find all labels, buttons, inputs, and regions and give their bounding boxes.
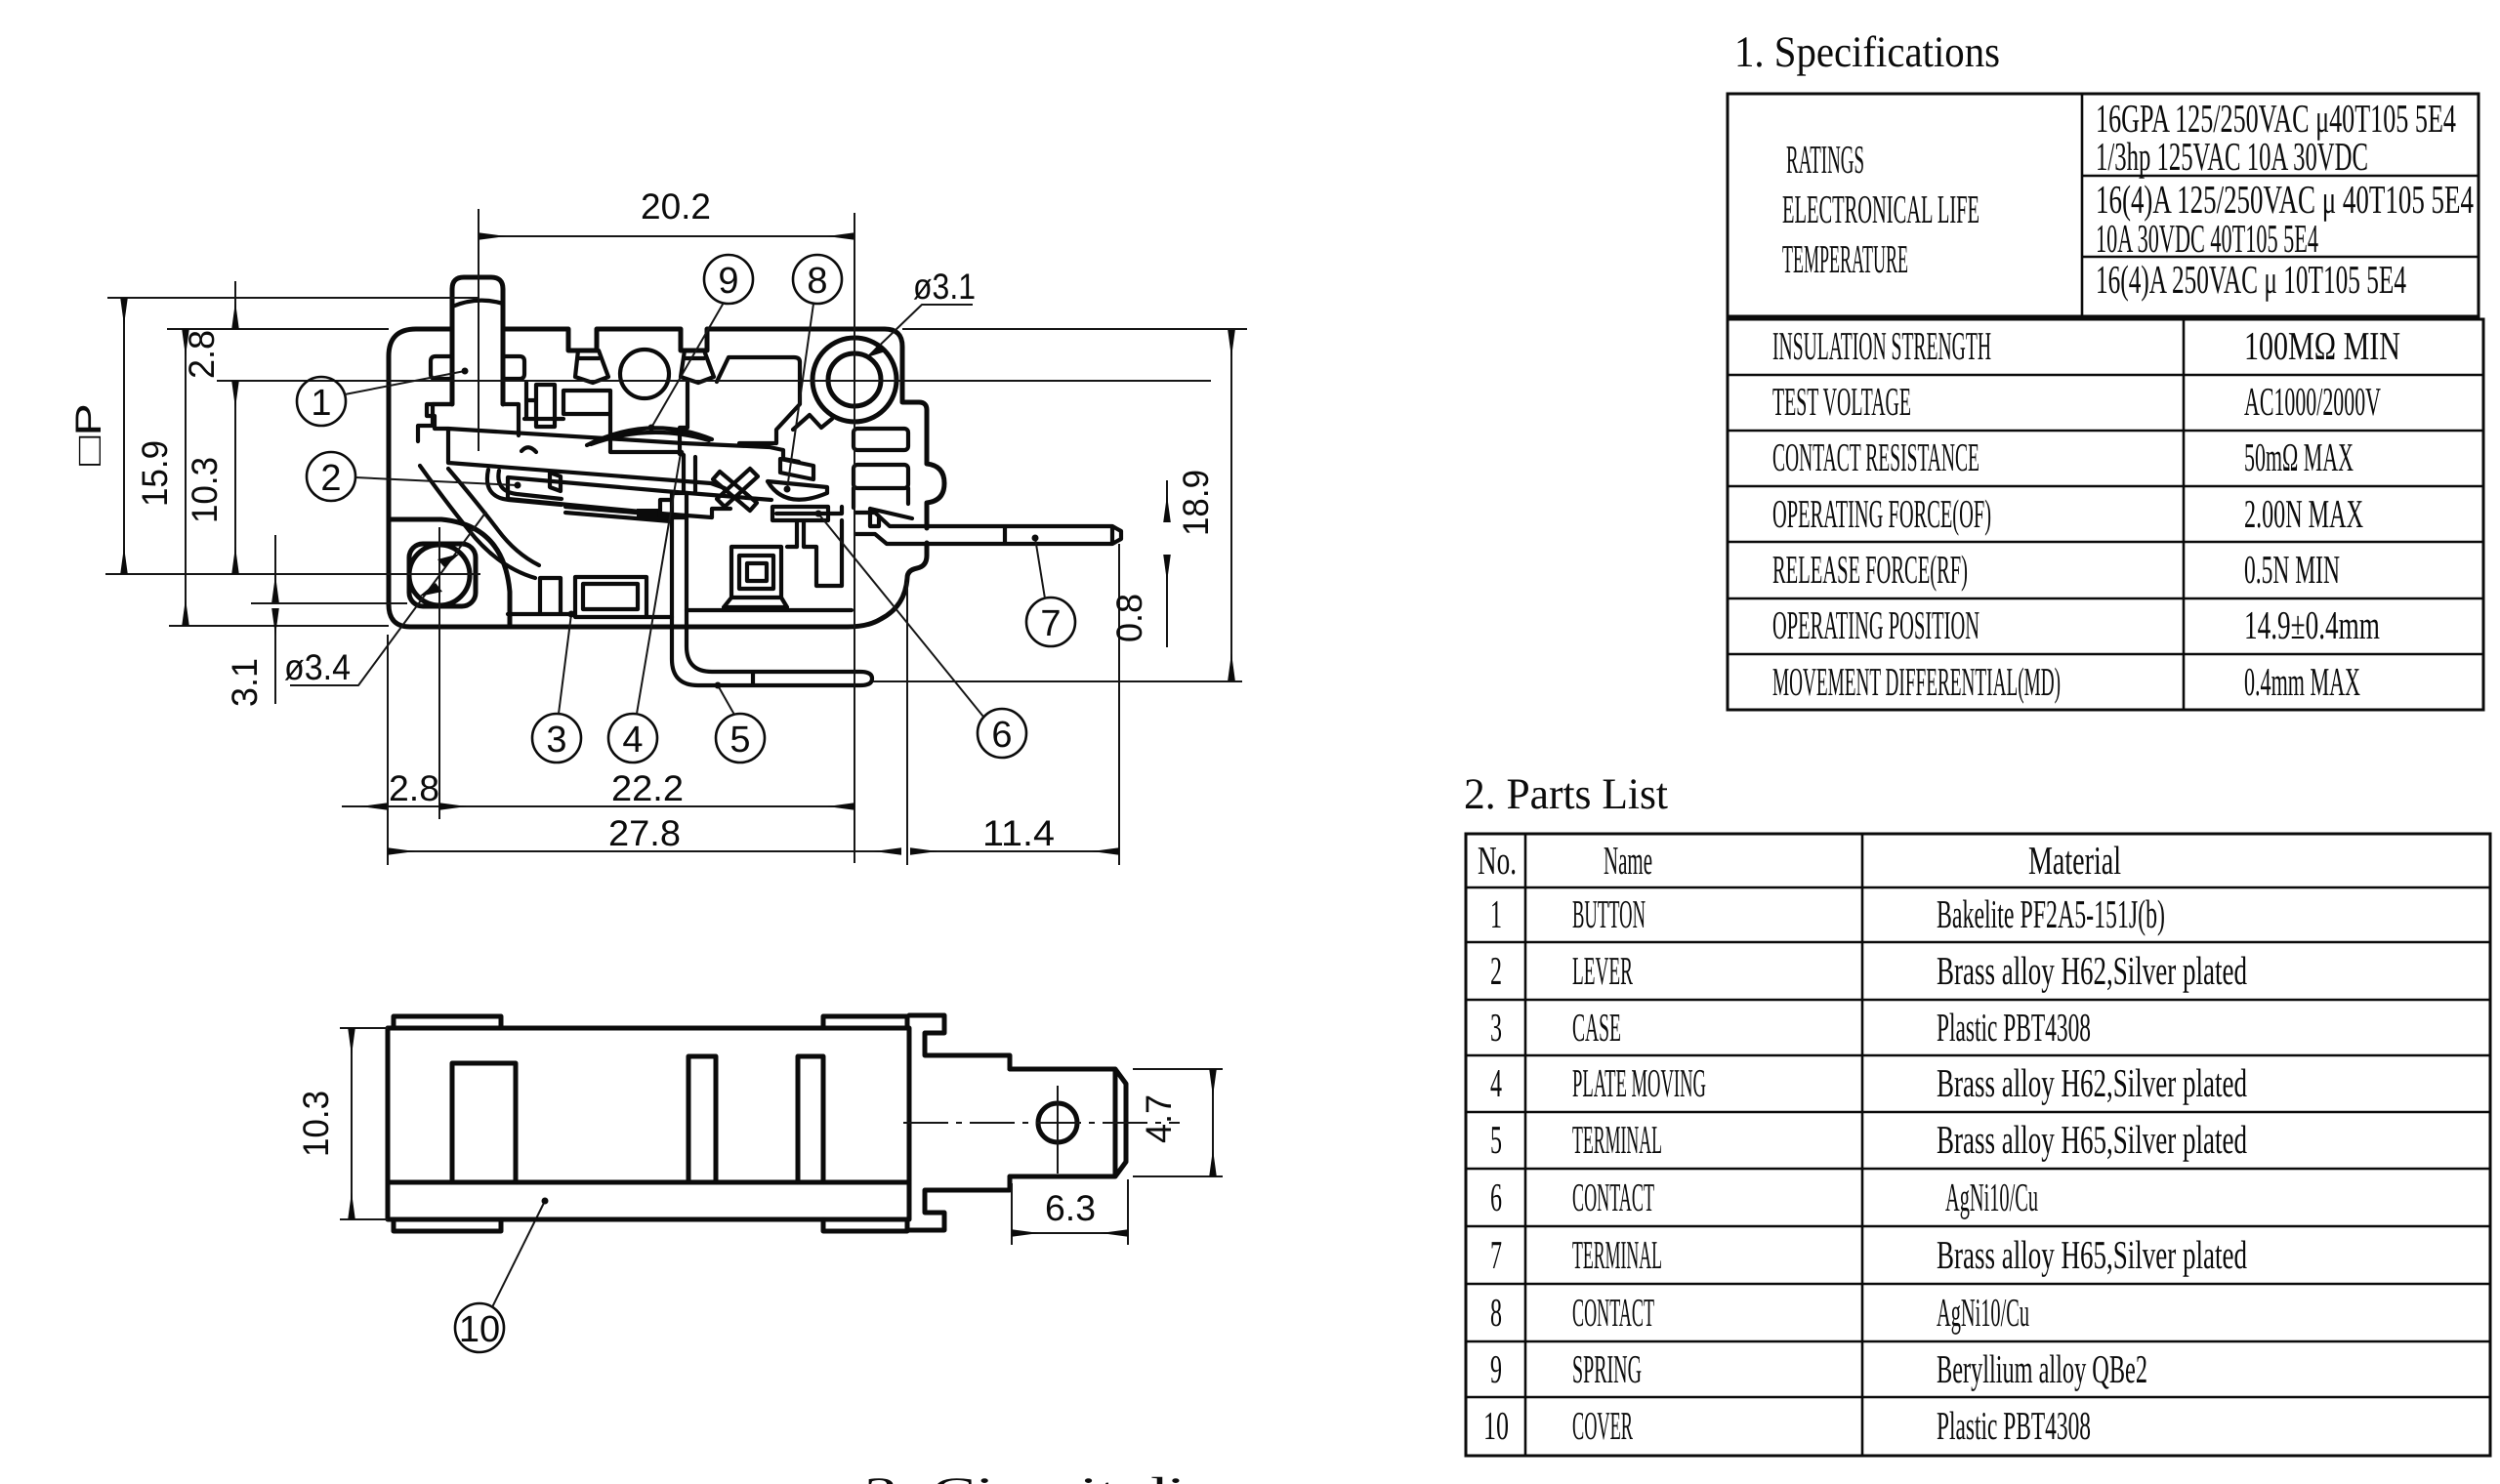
svg-text:10A 30VDC 40T105 5E4: 10A 30VDC 40T105 5E4 [2096,216,2318,261]
svg-text:COVER: COVER [1572,1403,1633,1448]
cover top-right tab [823,1016,907,1028]
o3.4 hole circle [409,545,470,605]
svg-text:0.8: 0.8 [1109,594,1149,642]
dimension 18.9 vertical [1230,330,1232,680]
dimension 11.4 horizontal [910,850,1119,852]
svg-text:TEST VOLTAGE: TEST VOLTAGE [1772,379,1911,424]
svg-text:SPRING: SPRING [1572,1346,1642,1391]
lower-left boss outline [389,519,510,626]
BOTTOM SIDE VIEW [296,1015,1223,1245]
svg-text:5: 5 [1490,1117,1502,1162]
svg-text:4: 4 [1490,1060,1502,1105]
blade hole vertical centerline [1057,1086,1059,1174]
svg-text:6: 6 [991,715,1012,756]
dimension 10.3 bottom view [340,1027,388,1029]
svg-text:LEVER: LEVER [1572,948,1633,993]
centerline through o3.1 vertical [854,213,855,863]
svg-text:Brass alloy H65,Silver plated: Brass alloy H65,Silver plated [1937,1117,2247,1162]
dimension 6.3 [1011,1183,1013,1245]
svg-text:10: 10 [459,1309,500,1350]
crossed contact bar B [713,472,757,511]
svg-text:RELEASE FORCE(RF): RELEASE FORCE(RF) [1772,547,1968,592]
extension line inner ledge y390 [217,380,1211,382]
contact support risers [787,507,842,586]
svg-text:7: 7 [1490,1232,1502,1277]
cover bottom-left tab [394,1219,501,1231]
svg-text:15.9: 15.9 [135,440,175,507]
extension 20.2 left [478,209,479,451]
spring lens part 9 [587,428,712,445]
svg-text:ø3.1: ø3.1 [913,267,976,307]
svg-text:4.7: 4.7 [1139,1094,1179,1143]
svg-text:CONTACT: CONTACT [1572,1175,1654,1219]
lever bar part 2 [427,404,799,488]
svg-text:4: 4 [622,720,643,761]
button skirt [418,404,519,441]
svg-text:14.9±0.4mm: 14.9±0.4mm [2244,602,2380,647]
svg-text:11.4: 11.4 [982,813,1055,853]
leader o3.4 arrowheads [419,583,442,597]
terminal blade [1010,1069,1126,1176]
svg-text:OPERATING FORCE(OF): OPERATING FORCE(OF) [1772,491,1991,536]
svg-text:Name: Name [1604,838,1652,883]
svg-text:AgNi10/Cu: AgNi10/Cu [1945,1175,2038,1219]
extension line case bottom left [169,625,389,627]
svg-text:ELECTRONICAL LIFE: ELECTRONICAL LIFE [1782,186,1979,231]
leader o3.1 [868,305,973,356]
part 8 support slant [780,459,813,479]
cover top-left tab [394,1016,501,1028]
top-middle right tooth [681,350,714,383]
inner wall left curve second [448,469,539,565]
dash-dot centerline [903,1122,1180,1124]
svg-text:10.3: 10.3 [296,1091,336,1157]
boss lower rib [854,488,912,526]
inner wall left curve [420,466,535,578]
dimension 15.9 vertical [185,329,187,626]
dimension 22.2 horizontal [439,805,854,807]
svg-text:3. Circuit diagram: 3. Circuit diagram [864,1468,1353,1484]
svg-text:BUTTON: BUTTON [1572,891,1646,936]
svg-text:OPERATING POSITION: OPERATING POSITION [1772,602,1979,647]
callout 1 [297,377,346,426]
extension line case top right to 18.9 [902,328,1247,330]
callout 3 [532,714,581,763]
svg-text:1. Specifications: 1. Specifications [1734,27,2000,76]
svg-text:Material: Material [2028,838,2121,883]
extension case left bottom [387,635,389,865]
dimension 20.2 horizontal [479,235,854,237]
dimension 27.8 horizontal [388,850,901,852]
svg-text:CONTACT: CONTACT [1572,1290,1654,1335]
callout 7 [1026,598,1075,646]
terminal neck top profile [909,1015,1010,1069]
parts row lines [1466,941,2490,944]
button dome inner line [452,301,503,307]
svg-text:AgNi10/Cu: AgNi10/Cu [1937,1290,2029,1335]
svg-text:ø3.4: ø3.4 [284,647,351,687]
terminal part 7 strip [855,513,1121,544]
ratings row line 2 [2082,256,2479,259]
DIMENSIONS MAIN VIEW [68,186,1247,865]
nested contact stack [724,547,787,607]
svg-text:10.3: 10.3 [185,457,225,523]
svg-text:18.9: 18.9 [1176,470,1216,536]
svg-text:PLATE MOVING: PLATE MOVING [1572,1060,1706,1105]
extension line hole bottom y618 [251,602,407,604]
svg-text:27.8: 27.8 [608,813,681,853]
svg-text:No.: No. [1478,838,1517,883]
moving plate part 4 [508,455,771,521]
hole circle inner o3.1 [828,353,881,406]
pivot post [536,385,555,427]
svg-text:2.8: 2.8 [182,330,222,379]
svg-text:6: 6 [1490,1175,1502,1219]
parts table frame [1466,834,2490,1456]
spec row lines [1728,374,2483,377]
inner left wall post [524,383,563,419]
o3.4 pocket rounded square [409,544,476,606]
callout 10 [455,1303,504,1352]
CALLOUTS [297,255,1075,1352]
svg-text:TERMINAL: TERMINAL [1572,1117,1662,1162]
svg-text:Beryllium alloy QBe2: Beryllium alloy QBe2 [1937,1346,2147,1391]
ratings column divider [2081,94,2084,316]
stationary contact block part 6 [772,507,828,547]
button left tab [431,356,452,379]
svg-text:CASE: CASE [1572,1005,1621,1050]
svg-text:0.4mm MAX: 0.4mm MAX [2244,659,2360,704]
svg-text:100MΩ MIN: 100MΩ MIN [2244,323,2400,368]
extension terminal end for 11.4 [1118,544,1120,865]
svg-text:TEMPERATURE: TEMPERATURE [1782,236,1908,281]
svg-text:AC1000/2000V: AC1000/2000V [2244,379,2381,424]
dimension 2.8 bottom horizontal [342,805,388,807]
svg-text:8: 8 [807,261,827,302]
spec table frame [1728,319,2483,710]
interior land double rect [575,577,852,617]
svg-text:10: 10 [1483,1403,1509,1448]
svg-text:Plastic PBT4308: Plastic PBT4308 [1937,1403,2091,1448]
inner ceiling steps right of circle [563,383,687,452]
interior floor windows [508,578,575,614]
svg-text:2: 2 [320,458,341,499]
svg-text:16(4)A 250VAC μ 10T105 5E4: 16(4)A 250VAC μ 10T105 5E4 [2096,257,2406,302]
svg-text:3: 3 [546,720,566,761]
extension line bottom pin level y698 [873,680,1242,682]
terminal neck bottom profile [909,1176,1010,1230]
svg-text:Brass alloy H65,Silver plated: Brass alloy H65,Silver plated [1937,1232,2247,1277]
dimension 4.7 [1133,1068,1223,1070]
callout 2 [307,452,355,501]
cover slot 3 [798,1056,823,1182]
small wedge detail [550,473,561,491]
svg-text:RATINGS: RATINGS [1786,137,1864,182]
button right tab [503,356,524,379]
svg-text:9: 9 [1490,1346,1502,1391]
svg-text:INSULATION STRENGTH: INSULATION STRENGTH [1772,323,1991,368]
inner ceiling plateau [717,357,800,382]
extension line case top [167,328,389,330]
case right lower profile [389,543,927,627]
svg-text:1: 1 [311,383,331,424]
svg-text:CONTACT RESISTANCE: CONTACT RESISTANCE [1772,434,1979,479]
SPECIFICATIONS TABLE [1728,27,2483,710]
svg-text:8: 8 [1490,1290,1502,1335]
parts header bottom [1466,886,2490,889]
parts column dividers [1524,834,1527,1456]
crossed contact bar A [717,469,758,507]
svg-text:5: 5 [729,720,750,761]
callout 4 [608,714,657,763]
svg-text:Brass alloy H62,Silver plated: Brass alloy H62,Silver plated [1937,948,2247,993]
terminal 5 top hook [660,493,687,517]
moving contact part 8 cup [768,481,827,500]
leader o3.1 arrowhead [867,344,886,357]
svg-text:2.8: 2.8 [389,768,439,808]
case right side bump [927,464,944,528]
svg-text:1/3hp 125VAC 10A 30VDC: 1/3hp 125VAC 10A 30VDC [2096,134,2368,179]
extension line hole center y588 [105,573,480,575]
dimension 10.3 vertical [234,381,236,574]
svg-text:20.2: 20.2 [641,186,711,227]
svg-text:22.2: 22.2 [611,768,684,808]
leader o3.4 [290,512,486,685]
cover body rect [388,1028,909,1219]
callout 8 [793,255,842,304]
svg-text:7: 7 [1040,603,1061,644]
top-middle left tooth [575,350,608,383]
svg-text:MOVEMENT DIFFERENTIAL(MD): MOVEMENT DIFFERENTIAL(MD) [1772,659,2061,704]
MAIN SECTION VIEW [389,277,1121,685]
cover slot 1 [452,1063,516,1182]
svg-text:2: 2 [1490,948,1502,993]
extension line top (button top level) [107,297,478,299]
boss right slot upper [854,429,908,450]
boss left wall and ledge [739,362,800,443]
PARTS LIST TABLE [864,769,2490,1484]
case outline left/top [389,329,927,604]
dimension OP vertical [123,298,125,574]
lever pivot block [487,470,562,505]
callout 6 [978,709,1026,758]
svg-text:□P: □P [68,403,108,466]
svg-text:Plastic PBT4308: Plastic PBT4308 [1937,1005,2091,1050]
svg-text:1: 1 [1490,891,1502,936]
dimension 3.1 vertical arrows outside [274,535,276,602]
svg-text:TERMINAL: TERMINAL [1572,1232,1662,1277]
svg-text:50mΩ MAX: 50mΩ MAX [2244,434,2354,479]
top-middle pin circle [620,350,669,398]
ratings row line 1 [2082,175,2479,178]
boss v-notch anchor [793,415,832,430]
button plunger part 1 [452,277,503,404]
callout 5 [716,714,765,763]
terminal part 5 riser and leg [672,493,872,685]
svg-text:2. Parts List: 2. Parts List [1464,769,1668,818]
boss circle outer (mounting hole boss) [812,338,896,422]
extension case right for 27.8/11.4 [906,582,908,865]
svg-text:0.5N MIN: 0.5N MIN [2244,547,2340,592]
spec column divider [2183,319,2186,710]
boss right slot lower [854,465,908,488]
svg-text:3: 3 [1490,1005,1502,1050]
cover slot 2 [688,1056,716,1182]
cover bottom-right tab [823,1219,907,1231]
dimension 0.8 vertical arrows outside [1166,480,1168,522]
svg-text:2.00N MAX: 2.00N MAX [2244,491,2363,536]
centerline through o3.4 vertical [438,527,440,819]
svg-text:Brass alloy H62,Silver plated: Brass alloy H62,Silver plated [1937,1060,2247,1105]
callout 9 [704,255,753,304]
blade hole [1038,1103,1077,1142]
small contact tail detail [637,509,662,518]
svg-text:Bakelite PF2A5-151J(b): Bakelite PF2A5-151J(b) [1937,891,2165,936]
dimension 2.8 vertical arrows outside [234,281,236,329]
svg-text:9: 9 [718,261,738,302]
svg-text:3.1: 3.1 [225,658,265,707]
cover parting line [388,1180,909,1185]
svg-text:6.3: 6.3 [1045,1188,1096,1228]
ratings table frame [1728,94,2479,316]
